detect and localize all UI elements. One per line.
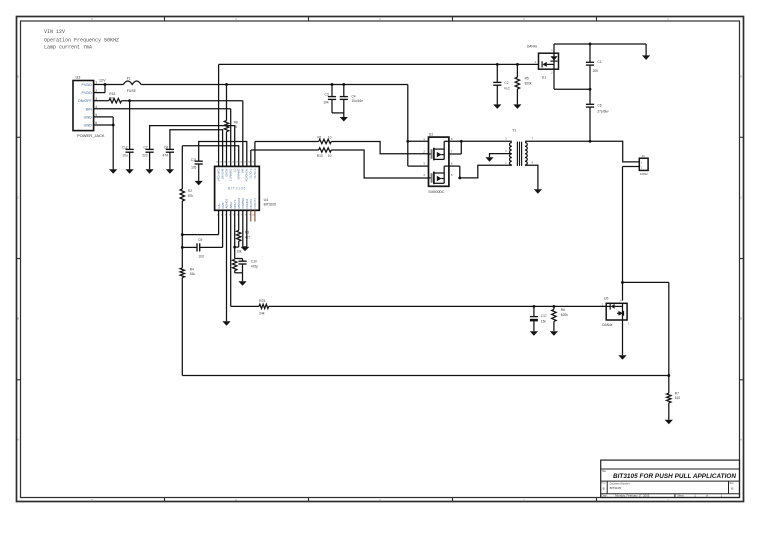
ground T1 secondary xyxy=(534,189,542,194)
svg-text:PVDD: PVDD xyxy=(82,83,93,87)
node 12V label xyxy=(99,79,106,83)
wire IC pin6 top to divider xyxy=(182,146,238,167)
ground C17 xyxy=(530,331,538,336)
svg-text:PVDD: PVDD xyxy=(82,91,93,95)
svg-text:J1: J1 xyxy=(642,154,646,158)
svg-text:C10: C10 xyxy=(251,260,257,264)
svg-text:U2: U2 xyxy=(429,132,434,136)
svg-text:C2: C2 xyxy=(504,81,508,85)
wire U2 pin6/pin5 to T1 pin1 xyxy=(449,165,512,179)
ground U3 xyxy=(109,169,117,174)
svg-text:R6: R6 xyxy=(561,308,565,312)
svg-text:104: 104 xyxy=(323,101,329,105)
wire J1 pin2 lamp return xyxy=(623,167,640,283)
capacitor C10 xyxy=(235,259,259,273)
svg-text:C1: C1 xyxy=(597,60,601,64)
wire IC pin1 bottom to divider xyxy=(182,210,218,234)
wire T1 secondary low to ground xyxy=(525,165,538,189)
wire bottom return rail xyxy=(182,375,669,377)
svg-text:B: B xyxy=(17,317,19,321)
wire U1 bottom pin xyxy=(554,69,590,89)
wire U3 pin5/pin6 to ground xyxy=(94,117,115,169)
junction divider-C9 xyxy=(181,246,184,249)
wire OVP rail (IC pin1 top to U1) xyxy=(219,64,539,166)
svg-text:820k: 820k xyxy=(525,82,532,86)
resistor R5 xyxy=(515,64,532,104)
diode U1 DAN4x xyxy=(527,45,559,80)
svg-text:POWER_JACK: POWER_JACK xyxy=(77,133,105,138)
resistor R10 xyxy=(317,148,332,158)
capacitor C17 xyxy=(530,306,547,331)
svg-text:Sheet: Sheet xyxy=(677,495,684,498)
wire IC pin4 bottom to R23 xyxy=(231,210,259,306)
wire IC pin2 bottom to C9 xyxy=(200,210,223,247)
svg-text:C12: C12 xyxy=(122,146,128,150)
junction rail-R6 xyxy=(552,305,555,308)
svg-text:Monday, February 17, 2003: Monday, February 17, 2003 xyxy=(615,494,650,498)
svg-text:R23: R23 xyxy=(259,299,265,303)
svg-text:15n: 15n xyxy=(541,320,547,324)
wire IC pin3 bottom to ground xyxy=(226,210,228,321)
wire IC pin7/pin8 bottom to ground xyxy=(243,210,247,247)
svg-text:R4: R4 xyxy=(190,267,194,271)
capacitor C6 xyxy=(586,89,609,141)
svg-text:CMP/OVP: CMP/OVP xyxy=(217,169,221,182)
svg-text:10: 10 xyxy=(328,135,332,139)
ground C8 xyxy=(166,169,174,174)
resistor R23 xyxy=(259,299,269,316)
svg-text:10: 10 xyxy=(234,125,238,129)
capacitor C9 xyxy=(182,238,204,259)
note text block xyxy=(44,29,119,51)
svg-text:C9: C9 xyxy=(198,238,202,242)
resistor R8 xyxy=(224,85,238,167)
svg-text:223: 223 xyxy=(142,154,148,158)
junction 12V-R8 xyxy=(225,83,228,86)
wire IC pin9 top to R10 xyxy=(251,150,319,166)
resistor R3 xyxy=(235,210,251,247)
svg-text:FUSE: FUSE xyxy=(127,89,137,93)
svg-text:DAN4x: DAN4x xyxy=(527,45,538,49)
ground T1 primary tap xyxy=(485,157,493,162)
svg-text:CON2: CON2 xyxy=(640,172,648,176)
resistor R6 xyxy=(552,306,568,331)
wire guard rail xyxy=(554,43,646,45)
svg-text:Operation Frequency 50KHZ: Operation Frequency 50KHZ xyxy=(44,37,119,43)
svg-text:R7: R7 xyxy=(675,391,679,395)
svg-text:4k7: 4k7 xyxy=(245,235,250,239)
junction sense-R7 xyxy=(667,374,670,377)
svg-text:B: B xyxy=(731,487,733,491)
svg-text:Date:: Date: xyxy=(602,495,608,498)
capacitor C2 xyxy=(493,64,510,104)
ground C3/C4 xyxy=(340,117,348,122)
svg-text:GND: GND xyxy=(84,115,93,119)
svg-text:U3: U3 xyxy=(76,76,81,80)
ground C2 xyxy=(493,104,501,109)
wire feedback rail to U5 xyxy=(269,305,606,307)
svg-text:DMAX/B: DMAX/B xyxy=(237,169,241,180)
junction pin5-R3 xyxy=(233,246,236,249)
svg-text:C6: C6 xyxy=(597,104,601,108)
ground C11 xyxy=(195,181,203,186)
svg-text:N.C: N.C xyxy=(504,87,510,91)
svg-text:C: C xyxy=(17,196,19,200)
ground IC pin3 xyxy=(222,321,230,326)
svg-text:R2: R2 xyxy=(188,189,192,193)
svg-text:Title: Title xyxy=(602,470,607,473)
wire R1 to U2 gate1 xyxy=(331,142,428,154)
svg-text:GND: GND xyxy=(84,124,93,128)
transistor U2 dual MOSFET SI4900DC xyxy=(423,132,453,194)
junction divider-pin1b xyxy=(181,233,184,236)
junction 12V-U2pin1 xyxy=(406,140,409,143)
wire rail to ground xyxy=(645,44,647,55)
svg-text:C7: C7 xyxy=(144,146,148,150)
svg-text:Document Number: Document Number xyxy=(610,482,630,485)
svg-text:BIN: BIN xyxy=(86,107,92,111)
svg-text:R1: R1 xyxy=(318,135,322,139)
wire T1 center tap to ground xyxy=(490,154,512,158)
svg-text:A: A xyxy=(740,438,742,442)
wire U2 pin8/pin7 to T1 pin3 xyxy=(449,140,512,154)
transformer T1 xyxy=(505,129,533,166)
connector J1 CON2 xyxy=(639,154,648,176)
wire T1 secondary high to lamp xyxy=(525,140,639,162)
wire U3 pin4 BIN to IC pin xyxy=(94,109,231,167)
svg-text:CT: CT xyxy=(233,169,237,173)
svg-text:PGND/OV: PGND/OV xyxy=(245,169,249,182)
resistor R1 xyxy=(318,135,332,143)
svg-text:B: B xyxy=(740,317,742,321)
svg-text:24k: 24k xyxy=(259,312,265,316)
capacitor C11 xyxy=(191,142,247,181)
svg-text:C8: C8 xyxy=(164,146,168,150)
svg-text:ON/OFF: ON/OFF xyxy=(78,99,93,103)
svg-text:B: B xyxy=(603,486,605,490)
svg-text:C3: C3 xyxy=(325,93,329,97)
title block xyxy=(601,460,740,498)
svg-text:R10: R10 xyxy=(317,154,323,158)
wire IC pin10 top to R1 xyxy=(255,142,319,167)
wire lamp return to sense xyxy=(623,282,669,375)
wire divider mid xyxy=(181,235,183,248)
svg-text:12V: 12V xyxy=(99,79,106,83)
ground C12 xyxy=(126,169,134,174)
junction ON/OFF-C12 xyxy=(128,99,131,102)
svg-text:A: A xyxy=(17,438,19,442)
svg-text:BNT/INT: BNT/INT xyxy=(221,169,225,180)
junction lamp return xyxy=(621,281,624,284)
svg-text:CMPA/CT: CMPA/CT xyxy=(229,169,233,182)
wire U1 top pin xyxy=(553,44,555,53)
svg-text:P OUT2: P OUT2 xyxy=(249,169,253,179)
ground C7 xyxy=(146,169,154,174)
diode U5 DAN4x xyxy=(602,297,630,327)
junction OVP-C2 xyxy=(496,63,499,66)
wire U3 pin3 to R16 xyxy=(94,100,109,102)
svg-text:VIN 12V: VIN 12V xyxy=(44,29,65,35)
resistor R16 xyxy=(109,92,122,103)
svg-text:105: 105 xyxy=(191,166,197,170)
svg-text:R5: R5 xyxy=(525,77,529,81)
svg-text:10u/16v: 10u/16v xyxy=(352,99,364,103)
capacitor C1 xyxy=(586,44,602,89)
wire R10 to U2 gate2 xyxy=(331,150,428,178)
svg-text:BIT3105 FOR PUSH PULL APPLICAT: BIT3105 FOR PUSH PULL APPLICATION xyxy=(613,473,736,480)
svg-text:C17: C17 xyxy=(541,314,547,318)
svg-text:Lamp current 7mA: Lamp current 7mA xyxy=(44,45,92,51)
svg-text:R16: R16 xyxy=(109,92,115,96)
svg-text:of: of xyxy=(706,495,708,498)
svg-text:C: C xyxy=(740,196,742,200)
svg-text:BIT3105: BIT3105 xyxy=(228,187,246,191)
wire IC pin9 stub xyxy=(250,210,252,221)
svg-text:T1: T1 xyxy=(512,129,516,133)
svg-text:510: 510 xyxy=(675,396,681,400)
wire IC pin5 bottom xyxy=(234,210,236,258)
svg-text:D: D xyxy=(740,75,742,79)
ground guard rail xyxy=(642,55,650,60)
ground IC pin7/8 xyxy=(241,247,250,251)
capacitor C4 xyxy=(340,85,364,118)
ground U5 xyxy=(618,355,626,360)
svg-text:820k: 820k xyxy=(561,313,568,317)
svg-text:BIT3105: BIT3105 xyxy=(610,486,622,490)
resistor R2 xyxy=(180,146,193,235)
wire lamp return to U5 xyxy=(622,282,624,300)
capacitor C12 xyxy=(122,101,134,170)
wire 12V rail drop to U2 pins 1,3 xyxy=(408,85,429,167)
junction rail-C17 xyxy=(532,305,535,308)
capacitor C7 xyxy=(142,126,234,170)
svg-text:20k: 20k xyxy=(109,97,115,101)
svg-text:474: 474 xyxy=(163,154,169,158)
wire U5 to ground xyxy=(622,320,624,355)
svg-text:DAN4x: DAN4x xyxy=(602,323,613,327)
junction 12V-C4 xyxy=(342,83,345,86)
wire 12V node to fuse xyxy=(105,84,123,86)
resistor R7 xyxy=(667,376,681,420)
svg-text:C11: C11 xyxy=(191,158,197,162)
svg-text:SI4900DC: SI4900DC xyxy=(428,190,445,194)
svg-text:U4: U4 xyxy=(264,198,269,202)
svg-text:10k: 10k xyxy=(236,249,242,253)
ground R7 xyxy=(665,420,673,425)
svg-text:57k: 57k xyxy=(188,194,194,198)
svg-text:BM: BM xyxy=(241,169,245,174)
wire RC network to ground xyxy=(242,273,244,281)
svg-text:10u: 10u xyxy=(122,154,128,158)
wire ON/OFF net to IC pin xyxy=(122,101,243,167)
junction OVP-R5 xyxy=(516,63,519,66)
ground RC network xyxy=(238,281,246,286)
svg-text:U1: U1 xyxy=(542,76,546,80)
svg-text:P OUT1: P OUT1 xyxy=(253,169,257,179)
svg-text:N OUT1: N OUT1 xyxy=(253,198,257,209)
svg-text:U5: U5 xyxy=(604,297,608,301)
resistor R4 xyxy=(180,247,195,375)
svg-text:AGND: AGND xyxy=(224,169,228,177)
ground R5 xyxy=(513,104,521,109)
wire U3 pin1/pin2 to 12V node xyxy=(94,83,107,93)
svg-text:27p/3kv: 27p/3kv xyxy=(597,109,609,113)
resistor R11 xyxy=(233,249,243,272)
svg-text:D: D xyxy=(17,75,19,79)
junction C1-C6 xyxy=(589,88,592,91)
op-amp U4 BIT3105 controller xyxy=(215,161,277,216)
svg-text:51k: 51k xyxy=(190,272,196,276)
capacitor C3 xyxy=(323,85,344,113)
svg-text:470p: 470p xyxy=(251,264,258,268)
junction rail-C1 xyxy=(589,43,592,46)
svg-text:103: 103 xyxy=(198,255,204,259)
svg-text:F1: F1 xyxy=(127,77,131,81)
svg-text:10: 10 xyxy=(328,154,332,158)
ground R6 xyxy=(550,331,558,336)
fuse F1 xyxy=(123,77,141,93)
svg-text:205: 205 xyxy=(593,69,599,73)
connector U3 POWER_JACK xyxy=(73,76,105,138)
wire IC pin10 stub xyxy=(254,210,256,221)
svg-text:BIT3105: BIT3105 xyxy=(264,202,277,206)
junction 12V-C3 xyxy=(331,83,334,86)
wire 12V rail (fuse to U2 drop) xyxy=(141,84,408,86)
capacitor C8 xyxy=(163,130,223,170)
